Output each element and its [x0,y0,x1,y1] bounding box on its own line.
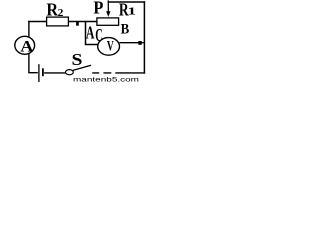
svg-text:P: P [93,0,103,18]
wire left vertical upper [28,21,30,37]
ammeter A1 [15,36,35,55]
svg-text:2: 2 [58,7,64,18]
svg-text:V: V [107,39,114,55]
wire dashed segments [92,72,111,74]
slider arrow of rheostat (pointer P) [106,0,110,17]
svg-text:A: A [86,23,95,43]
rheostat R1 box [97,18,119,25]
svg-text:A: A [20,37,34,55]
wire battery to switch [44,72,65,74]
svg-text:S: S [72,50,83,69]
wire branch from top wire to voltmeter [86,22,98,45]
wire bottom-left corner to battery [28,72,38,74]
junction node dot at right vertical [138,41,141,45]
wire left vertical lower [28,54,30,72]
label R2 [46,0,63,19]
wire top-left (corner to R2) [28,21,47,23]
voltmeter V [98,38,120,56]
svg-text:mantenb5.com: mantenb5.com [73,77,139,83]
wire R2 to rheostat terminal A [68,21,98,23]
junction node dot on top wire [76,22,79,26]
wire top-right (slider to right side) [108,1,146,3]
wire bottom-right [115,72,145,74]
svg-text:B: B [121,22,130,38]
resistor R2 box [47,17,69,26]
wire voltmeter to right vertical [119,42,143,44]
wire right vertical [143,1,145,73]
battery cell [39,64,43,82]
svg-text:1: 1 [128,6,137,18]
label R1 [119,0,136,20]
switch S [66,65,92,75]
